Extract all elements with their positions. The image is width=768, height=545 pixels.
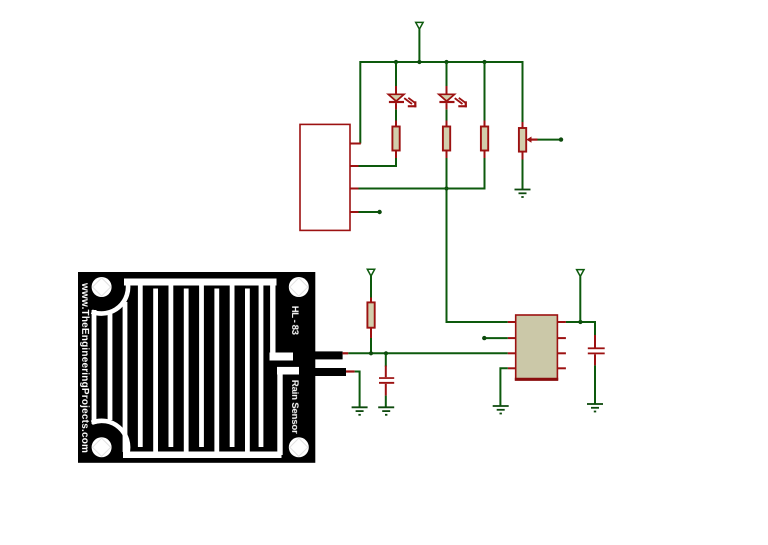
node dot RV1 wiper end [559, 137, 563, 141]
node dot pin B wire end [482, 336, 486, 340]
mounting hole top-left [92, 277, 112, 297]
trace arc around top-left hole [92, 281, 128, 314]
lower output pad [277, 367, 299, 375]
wire RV1 wiper stub [538, 139, 561, 141]
U1 pin4 stub [350, 211, 359, 213]
trace finger 9 [230, 285, 235, 447]
wire U2 pin D to ground [500, 368, 507, 406]
wire R5 bottom to sensor net [370, 338, 372, 353]
junction U2 power node [578, 320, 582, 324]
junction on bus at LED D1 column [394, 60, 398, 64]
U2 right pin B stub [557, 337, 566, 339]
U2 right pin A stub [557, 321, 566, 323]
mounting hole bottom-right [289, 437, 309, 457]
resistor R2 [443, 121, 450, 159]
mounting hole top-right [289, 277, 309, 297]
wire bus left drop to U1 pin1 [359, 61, 361, 144]
trace left vertical [92, 310, 97, 424]
U2 right pin D stub [557, 367, 566, 369]
junction R2 wire with U1 pin3 wire [444, 186, 448, 190]
wire C1 branch down [385, 353, 387, 366]
wire U1 pin3 horizontal [359, 188, 486, 190]
wire C1 to ground [385, 396, 387, 408]
junction on bus at resistor R3 column [482, 60, 486, 64]
LED D1 [388, 86, 416, 109]
junction on bus at power P1 [417, 60, 421, 64]
U1 pin3 stub [350, 188, 359, 190]
sensor top pin stub [343, 352, 349, 354]
trace connector lower pad to bottom bus [277, 375, 282, 456]
U2 left pin D stub [508, 367, 516, 369]
wire bus to D1 anode [395, 62, 397, 87]
trace top bus [124, 279, 277, 286]
wire D2 cathode to R2 [446, 110, 448, 124]
wire U2 pin B dangling [484, 337, 508, 339]
wire R3 bottom to pin3 net [484, 158, 486, 190]
wire D1 cathode to R1 [395, 110, 397, 124]
U2 right pin C stub [557, 352, 566, 354]
sensor bottom pin stub [346, 370, 355, 372]
trace finger 8 [214, 289, 219, 453]
trace finger 10 [245, 289, 250, 453]
trace bottom bus [123, 452, 282, 459]
trace finger 1 [108, 311, 113, 420]
IC U2 (sensor comparator) [515, 315, 558, 380]
capacitor C1 [379, 366, 394, 396]
wire sensor signal horizontal to U2 [348, 352, 508, 354]
resistor R5 (sensor pull-up) [367, 298, 374, 339]
resistor R3 [481, 121, 488, 159]
wire bus right drop to RV1 [522, 61, 524, 123]
resistor R1 [392, 121, 399, 159]
potentiometer RV1 [519, 122, 538, 160]
U2 left pin A stub [508, 321, 516, 323]
rain sensor module RS1 (HL-83 board) [78, 272, 346, 463]
ground G4 under C2 [587, 404, 603, 412]
wire sensor bottom pin to ground [355, 372, 360, 408]
wire U1 pin4 dangling [359, 211, 379, 213]
junction sensor net at C1 branch [384, 351, 388, 355]
sensor board body [78, 272, 315, 463]
trace finger 2 [123, 302, 128, 452]
ground G3 under U2 pin D [493, 406, 509, 414]
trace finger 6 [184, 289, 189, 453]
upper output pad [270, 353, 294, 361]
svg-text:Rain Sensor: Rain Sensor [289, 380, 300, 434]
wire top bus [360, 61, 522, 63]
wire U2 pin A to C2 [566, 322, 595, 336]
wire bus to R3 [484, 62, 486, 123]
wire bus to D2 anode [446, 62, 448, 87]
ground G0 under RV1 [515, 190, 531, 198]
U1 pin2 stub [350, 165, 359, 167]
ground G2 under C1 [378, 407, 394, 415]
power symbol P3 (VCC right) [577, 270, 584, 322]
power symbol P1 (VCC top) [416, 22, 423, 62]
U1 pin1 stub [350, 143, 361, 145]
junction sensor net at R5 [369, 351, 373, 355]
LED D2 [439, 86, 467, 109]
trace finger 7 [199, 285, 204, 447]
wire R2 bottom down to IC U2 pin A [447, 158, 508, 322]
U2 left pin C stub [508, 352, 516, 354]
box component U1 (comparator module) [300, 124, 350, 230]
sensor top pin pad black [310, 351, 343, 359]
svg-text:HL - 83: HL - 83 [289, 306, 300, 335]
trace connector to upper pad [270, 285, 275, 356]
trace finger 5 [168, 285, 173, 447]
wire RV1 bottom to ground [522, 160, 524, 190]
mounting hole bottom-left [92, 437, 112, 457]
node dot pin4 wire end [377, 210, 381, 214]
power symbol P2 (middle VCC) [367, 269, 374, 298]
capacitor C2 [588, 335, 605, 365]
ground G1 under sensor pin [352, 407, 368, 415]
trace finger 4 [153, 289, 158, 453]
trace finger 11 [259, 285, 264, 447]
trace arc around bottom-left hole [92, 421, 128, 454]
trace finger 3 [138, 285, 143, 447]
sensor bottom pin pad black [310, 368, 346, 376]
svg-text:www.TheEngineeringProjects.com: www.TheEngineeringProjects.com [79, 282, 90, 453]
wire R1 bottom to U1 pin2 [359, 158, 397, 166]
wire C2 to ground [594, 365, 596, 404]
junction on bus at LED D2 column [444, 60, 448, 64]
U2 left pin B stub [508, 337, 516, 339]
